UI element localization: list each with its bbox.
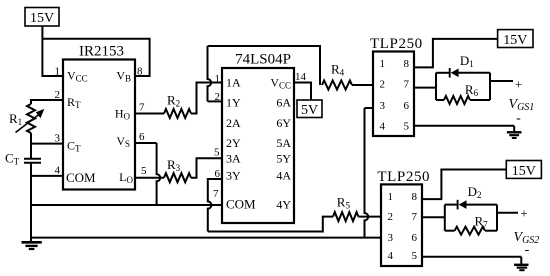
svg-text:15V: 15V bbox=[30, 11, 54, 26]
svg-text:COM: COM bbox=[226, 197, 256, 212]
wire pin4 COM bbox=[32, 175, 63, 177]
capacitor C_T plate top bbox=[24, 158, 41, 160]
wire TLP250-2 pin7 to D2/R7 bbox=[422, 216, 445, 218]
svg-text:1Y: 1Y bbox=[226, 96, 241, 110]
svg-text:6: 6 bbox=[404, 100, 410, 112]
wire 15V to pin1 VCC bbox=[42, 26, 63, 76]
wire TLP250-1 pin8 to 15V bbox=[414, 39, 498, 68]
wire R3 to 74LS04P pin5 3A bbox=[191, 158, 222, 178]
optocoupler U3 TLP250 body bbox=[373, 52, 414, 137]
svg-text:7: 7 bbox=[213, 188, 219, 200]
resistor R6 bbox=[436, 99, 444, 101]
IC U2 74LS04P hex inverter body bbox=[222, 68, 294, 223]
wire 3Y branch to R5 bbox=[208, 217, 333, 232]
svg-text:2: 2 bbox=[380, 79, 386, 91]
svg-text:14: 14 bbox=[295, 71, 307, 83]
ground (VGS2) bbox=[520, 257, 522, 265]
svg-text:COM: COM bbox=[66, 170, 96, 185]
D1/R6 network frame bbox=[435, 73, 437, 100]
svg-text:5: 5 bbox=[141, 165, 147, 177]
svg-text:5A: 5A bbox=[276, 136, 291, 150]
resistor R3 bbox=[164, 173, 191, 182]
svg-text:2: 2 bbox=[388, 211, 394, 223]
svg-text:1: 1 bbox=[215, 73, 221, 85]
svg-text:15V: 15V bbox=[503, 33, 527, 48]
ground (VGS1) bbox=[513, 126, 515, 132]
svg-text:5Y: 5Y bbox=[276, 152, 291, 166]
wire node 1Y to R4 vertical (hop over 1A wire) bbox=[208, 46, 212, 101]
svg-text:3Y: 3Y bbox=[226, 169, 241, 183]
wire pin2 RT bbox=[31, 100, 63, 104]
diode D2 bbox=[445, 204, 457, 206]
svg-text:2: 2 bbox=[215, 91, 221, 103]
svg-text:3: 3 bbox=[380, 100, 386, 112]
wire VS down to ground rail (hop over LO wire) bbox=[157, 143, 161, 205]
wire TLP250-1 pin5 to ground bbox=[414, 125, 514, 127]
svg-text:4: 4 bbox=[380, 121, 386, 133]
diode D1 bbox=[436, 72, 449, 74]
svg-text:1: 1 bbox=[380, 58, 386, 70]
D2/R7 network frame bbox=[444, 205, 446, 231]
svg-text:8: 8 bbox=[404, 58, 410, 70]
svg-text:IR2153: IR2153 bbox=[79, 44, 124, 60]
svg-text:7: 7 bbox=[404, 79, 410, 91]
supply box 15V (top-right) bbox=[498, 30, 533, 48]
wire R1 bottom to CT cap bbox=[30, 133, 32, 159]
svg-text:8: 8 bbox=[412, 191, 418, 203]
resistor R5 bbox=[333, 212, 358, 221]
supply box 5V bbox=[297, 100, 322, 118]
wire output VGS1 plus bbox=[490, 80, 513, 82]
svg-text:1: 1 bbox=[388, 191, 394, 203]
svg-text:5: 5 bbox=[214, 147, 220, 159]
resistor R7 bbox=[445, 230, 455, 232]
wire top net 1Y to R4 bbox=[208, 46, 321, 85]
wire TLP250-1 pin3 stub bbox=[365, 107, 374, 109]
supply box 15V (top-left) bbox=[25, 8, 59, 27]
wire output VGS2 plus bbox=[497, 212, 518, 214]
svg-text:3A: 3A bbox=[226, 152, 241, 166]
svg-text:2Y: 2Y bbox=[226, 136, 241, 150]
svg-text:-: - bbox=[525, 243, 530, 258]
svg-text:74LS04P: 74LS04P bbox=[235, 52, 291, 68]
svg-text:6: 6 bbox=[139, 131, 145, 143]
svg-text:4: 4 bbox=[388, 250, 394, 262]
wire TLP250-1 pin7 to D1/R6 bbox=[414, 87, 436, 89]
resistor R1 (potentiometer) bbox=[27, 104, 35, 133]
wire R5 to TLP250-2 pin2 bbox=[358, 216, 381, 218]
wire ground rail lower (to TLP250-2 pin3) bbox=[31, 237, 381, 239]
wire pin14 to 5V box bbox=[294, 83, 311, 101]
wire TLP250-1 pin3 to ground rail (hop over R5 wire) bbox=[365, 108, 369, 238]
wire pin2 1Y stub bbox=[208, 100, 223, 102]
wire pin3 CT bbox=[32, 143, 63, 145]
svg-text:1: 1 bbox=[55, 66, 61, 78]
svg-text:3: 3 bbox=[388, 232, 394, 244]
svg-text:5: 5 bbox=[412, 250, 418, 262]
svg-text:6A: 6A bbox=[276, 96, 291, 110]
supply box 15V (mid-right) bbox=[506, 161, 541, 179]
svg-text:7: 7 bbox=[412, 211, 418, 223]
svg-text:1A: 1A bbox=[226, 76, 241, 90]
wire HO to R2 bbox=[135, 113, 164, 115]
resistor R2 bbox=[164, 109, 191, 118]
svg-text:TLP250: TLP250 bbox=[377, 169, 430, 185]
resistor R4 bbox=[322, 81, 352, 90]
optocoupler U4 TLP250 body bbox=[381, 184, 422, 266]
wire R2 to 74LS04P pin1 1A bbox=[191, 83, 222, 114]
svg-text:4: 4 bbox=[55, 165, 61, 177]
capacitor C_T plate bottom bbox=[24, 162, 41, 164]
svg-text:4A: 4A bbox=[276, 169, 291, 183]
svg-text:8: 8 bbox=[137, 66, 143, 78]
svg-text:+: + bbox=[515, 77, 522, 92]
wire ground rail upper (COM net to 74LS04P pin7) bbox=[31, 204, 222, 206]
wire 15V branch to pin8 VB bbox=[42, 39, 149, 76]
wire cap to ground rail bbox=[30, 163, 32, 242]
wire TLP250-2 pin8 to 15V bbox=[422, 170, 506, 200]
svg-text:5V: 5V bbox=[301, 103, 318, 118]
svg-text:6: 6 bbox=[412, 232, 418, 244]
wire LO to R3 bbox=[135, 177, 164, 179]
wire TLP250-2 pin5 to ground bbox=[422, 256, 521, 258]
R1 arrow bbox=[16, 113, 42, 133]
svg-text:15V: 15V bbox=[512, 164, 536, 179]
svg-text:2A: 2A bbox=[226, 116, 241, 130]
svg-text:5: 5 bbox=[404, 121, 410, 133]
wire VS stub bbox=[135, 142, 157, 144]
svg-text:-: - bbox=[516, 111, 521, 126]
svg-text:7: 7 bbox=[139, 102, 145, 114]
wire 3Y pin6 down to R5 branch (hop over ground rail) bbox=[208, 179, 222, 232]
svg-text:6Y: 6Y bbox=[276, 116, 291, 130]
ground (main left) bbox=[22, 241, 42, 244]
svg-text:+: + bbox=[520, 206, 527, 221]
svg-text:4Y: 4Y bbox=[276, 198, 291, 212]
IC U1 IR2153 gate driver body bbox=[63, 60, 135, 190]
wire R4 to TLP250-1 pin2 bbox=[352, 84, 373, 86]
svg-text:TLP250: TLP250 bbox=[370, 36, 423, 52]
